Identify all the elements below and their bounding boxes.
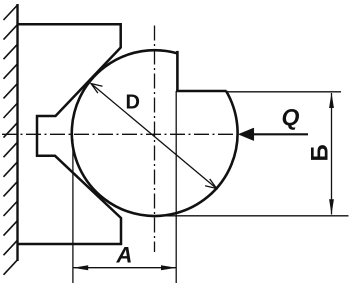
horizontal centerline <box>2 133 236 135</box>
step edge of upper plate (vertical) <box>176 51 179 91</box>
bottom reference line (ball bottom tangent) <box>160 215 349 217</box>
arrowhead A right (filled) <box>161 265 176 270</box>
prism (V-block) outline <box>18 24 122 244</box>
svg-text:Б: Б <box>307 144 334 161</box>
svg-text:A: A <box>116 243 133 268</box>
arrowhead B bottom (filled, pointing down) <box>329 199 334 215</box>
extension line left of A <box>72 139 74 283</box>
extension line right of A (through ball) <box>175 91 177 283</box>
hatching of wall <box>4 5 18 275</box>
svg-text:D: D <box>126 91 140 113</box>
step face (horizontal thick) <box>176 90 226 93</box>
svg-text:Q: Q <box>282 104 300 130</box>
dimension line B (vertical) <box>331 93 333 215</box>
ball (circle), hidden part behind step omitted <box>72 50 238 216</box>
arrowhead B top (filled, pointing up) <box>329 93 334 109</box>
vertical centerline <box>154 26 156 253</box>
wall (fixed support line) <box>16 4 18 261</box>
arrowhead A left (filled) <box>73 265 88 270</box>
diameter line D <box>91 84 217 189</box>
dimension line A <box>73 267 176 269</box>
arrowhead lower-right of D line (open) <box>205 179 217 189</box>
arrowhead upper-left of D line (open) <box>91 84 103 94</box>
arrowhead of Q (filled, pointing left) <box>239 128 254 141</box>
force line Q <box>252 133 308 135</box>
top reference line for B dimension <box>227 91 342 93</box>
